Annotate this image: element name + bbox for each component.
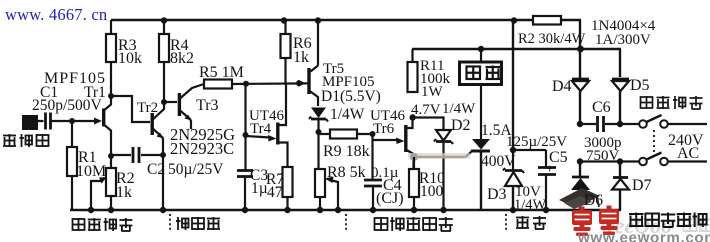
svg-text:1k: 1k	[293, 49, 309, 66]
svg-text:D6: D6	[584, 192, 603, 209]
svg-text:D2: D2	[451, 117, 471, 134]
svg-text:D4: D4	[552, 78, 572, 95]
svg-text:D5: D5	[630, 77, 650, 94]
svg-text:www. 4667. cn: www. 4667. cn	[5, 5, 107, 24]
svg-text:2N2923C: 2N2923C	[170, 139, 234, 158]
svg-text:R5 1M: R5 1M	[199, 64, 244, 81]
svg-text:1/4W: 1/4W	[330, 106, 365, 123]
svg-text:1A/300V: 1A/300V	[595, 32, 651, 48]
svg-text:(CJ): (CJ)	[376, 190, 404, 207]
svg-text:C6: C6	[592, 99, 611, 116]
svg-text:Tr2: Tr2	[137, 100, 158, 116]
svg-text:D3: D3	[487, 186, 507, 203]
svg-text:Tr6: Tr6	[373, 121, 395, 137]
svg-text:1W: 1W	[421, 84, 444, 100]
svg-text:D7: D7	[632, 177, 652, 194]
svg-text:47: 47	[267, 184, 283, 201]
svg-text:4.7V: 4.7V	[411, 102, 441, 118]
svg-text:AC: AC	[677, 145, 699, 162]
svg-text:125µ/25V: 125µ/25V	[506, 134, 567, 150]
svg-text:50µ/25V: 50µ/25V	[168, 161, 224, 178]
svg-text:10k: 10k	[118, 50, 142, 67]
svg-text:1/4W: 1/4W	[442, 101, 476, 117]
svg-text:R9 18k: R9 18k	[323, 143, 370, 160]
svg-text:Tr3: Tr3	[196, 97, 219, 114]
svg-text:www.eeworm.com: www.eeworm.com	[577, 230, 710, 242]
svg-text:1k: 1k	[116, 184, 132, 201]
svg-text:D1(5.5V): D1(5.5V)	[321, 88, 381, 105]
svg-text:250p/500V: 250p/500V	[32, 97, 103, 114]
svg-text:100: 100	[420, 183, 444, 200]
svg-text:8k2: 8k2	[170, 50, 194, 67]
svg-text:400V: 400V	[481, 153, 516, 170]
svg-text:Tr4: Tr4	[250, 121, 272, 137]
svg-text:R2 30k/4W: R2 30k/4W	[518, 31, 586, 47]
